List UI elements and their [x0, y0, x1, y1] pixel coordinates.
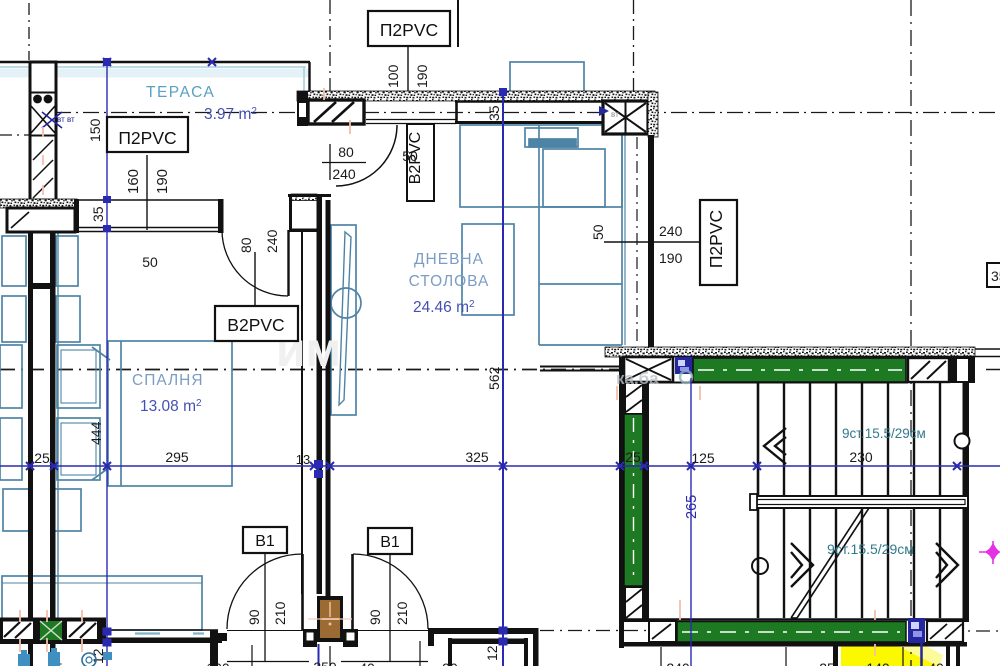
svg-text:190: 190	[414, 64, 430, 88]
vertical dimension line x=318	[318, 460, 320, 474]
door frame lines below stair wall	[833, 646, 960, 666]
door B1 left leaf and arc	[227, 554, 303, 631]
svg-text:13.08 m2: 13.08 m2	[140, 398, 202, 415]
top wall window sill lines (opening)	[366, 120, 456, 124]
handrail bar	[750, 494, 968, 510]
stair left wall	[619, 357, 649, 648]
svg-text:80: 80	[338, 144, 354, 160]
watermark ka.ba	[616, 369, 692, 388]
terrace bottom wall box	[7, 208, 75, 232]
svg-text:25: 25	[625, 449, 641, 465]
svg-text:240: 240	[264, 229, 280, 253]
svg-text:35: 35	[90, 206, 106, 222]
stair left wall hatch below green	[625, 587, 643, 621]
yellow highlight wedge bottom right	[841, 641, 943, 666]
svg-text:80: 80	[238, 237, 254, 253]
axis line vertical x=633 top	[633, 0, 635, 96]
svg-text:90: 90	[246, 609, 262, 625]
svg-text:П2PVC: П2PVC	[380, 20, 438, 40]
stair top wall	[622, 357, 1000, 383]
tie line above window jamb	[457, 0, 459, 47]
bed pillows / side panels	[57, 345, 100, 408]
svg-text:240: 240	[666, 660, 690, 666]
svg-text:П2PVC: П2PVC	[118, 128, 176, 148]
stair bottom wall hatch right	[927, 621, 963, 642]
svg-text:125: 125	[691, 450, 715, 466]
partial label box right edge	[987, 263, 1000, 287]
stair left wall hatch above green	[625, 383, 643, 414]
svg-text:210: 210	[394, 601, 410, 625]
svg-text:3.97 m2: 3.97 m2	[204, 106, 257, 123]
label box P2PVC terrace	[107, 117, 188, 230]
right wall speckle	[648, 92, 658, 137]
svg-text:СПАЛНЯ: СПАЛНЯ	[132, 372, 204, 389]
salmon construction ticks	[20, 88, 875, 656]
bedroom terrace door leaf and arc	[222, 230, 289, 296]
top wall speckle band	[297, 91, 655, 101]
stair treads upper flight	[784, 383, 940, 497]
svg-text:B1: B1	[380, 534, 400, 551]
stair top green band	[693, 358, 906, 382]
door B1 right leaf and arc	[352, 554, 428, 631]
stair left wall green band	[624, 414, 643, 586]
lower flight chevron left	[791, 543, 813, 587]
svg-text:ТЕРАСА: ТЕРАСА	[146, 84, 215, 101]
stair left wall top X box	[624, 357, 673, 382]
svg-text:СТОЛОВА: СТОЛОВА	[409, 273, 490, 290]
party wall connector bar	[28, 283, 55, 289]
central wall	[288, 194, 331, 596]
stair top wall hatch right	[908, 349, 1000, 383]
svg-text:25: 25	[819, 660, 835, 666]
label box B2PVC top (rotated)	[407, 124, 434, 201]
stair up diagonal (double line)	[791, 508, 869, 618]
dining table	[462, 224, 514, 315]
svg-text:562: 562	[486, 366, 502, 390]
vt marker at corner	[599, 106, 619, 119]
top-left shaft column	[30, 62, 56, 200]
top wall left end block	[297, 91, 308, 126]
svg-text:150: 150	[87, 118, 103, 142]
sofa vertical divider	[538, 125, 540, 345]
navy markers at x=107 top and wall crossings	[103, 58, 508, 647]
top-right corner box with X braces	[603, 101, 648, 134]
stair right wall	[963, 382, 970, 622]
label box B2PVC bedroom	[215, 252, 298, 341]
axis line vertical x=911 full height	[910, 0, 912, 666]
svg-text:50: 50	[590, 224, 606, 240]
axis line vertical x=29 top	[28, 3, 30, 60]
entry door wooden frame (brown)	[317, 596, 343, 642]
svg-text:160: 160	[125, 169, 142, 194]
label box B1 right	[368, 528, 412, 662]
terrace bottom wall speckle	[0, 199, 77, 208]
svg-text:325: 325	[465, 449, 489, 465]
svg-text:35: 35	[486, 105, 502, 121]
bedroom bed	[108, 341, 232, 486]
door B1 mullion with jamb blocks	[303, 629, 358, 647]
svg-text:25: 25	[34, 450, 50, 466]
svg-text:13: 13	[296, 452, 310, 467]
terrace window	[74, 199, 224, 233]
terrace top edge pale band	[0, 62, 310, 93]
svg-text:П2PVC: П2PVC	[706, 210, 726, 268]
svg-text:444: 444	[88, 421, 104, 445]
svg-text:B2PVC: B2PVC	[227, 315, 284, 335]
svg-text:90: 90	[442, 660, 458, 666]
wardrobe along bottom wall	[2, 576, 202, 630]
planter above top wall	[510, 62, 584, 92]
top wall solid section	[455, 101, 624, 124]
upper flight arrow chevron left	[764, 428, 786, 464]
top wall masonry pier with hatch	[308, 100, 364, 124]
svg-text:295: 295	[165, 449, 189, 465]
axis line vertical x=330 top	[329, 0, 331, 122]
svg-text:ДНЕВНА: ДНЕВНА	[414, 251, 484, 268]
leader 80/240 terrace door	[322, 144, 366, 180]
svg-text:90: 90	[367, 609, 383, 625]
svg-text:35: 35	[991, 268, 1000, 284]
night stands below bed	[3, 489, 32, 531]
svg-text:230: 230	[849, 449, 873, 465]
svg-text:250: 250	[313, 659, 337, 666]
lower flight newel circle	[752, 558, 768, 574]
vertical dimension line x=107	[106, 60, 108, 666]
axis line horizontal y=135 short left	[0, 134, 30, 136]
label box B1 left	[243, 527, 287, 662]
stair bottom green band	[677, 622, 906, 643]
sofa top inner cushion	[543, 149, 605, 207]
stairwell inner edge left	[757, 383, 760, 618]
svg-text:50: 50	[402, 148, 418, 164]
main horizontal dimension line y=466	[0, 465, 1000, 467]
vertical dimension line x=691	[690, 378, 692, 666]
balcony door arc top wall	[336, 125, 397, 186]
lower flight chevron right	[936, 543, 958, 587]
svg-text:265: 265	[684, 495, 700, 519]
bottom-left wall with modules	[0, 618, 106, 645]
party wall lines left	[28, 232, 56, 666]
stair bottom wall	[621, 620, 967, 647]
sofa top section	[460, 125, 622, 207]
axis line horizontal y=369	[0, 369, 620, 371]
svg-text:12: 12	[484, 645, 500, 661]
svg-text:B1: B1	[255, 533, 275, 550]
hall inner wall bottom center	[428, 628, 539, 666]
svg-text:24.46 m2: 24.46 m2	[413, 299, 475, 316]
svg-text:190: 190	[659, 250, 683, 266]
bottom-left plumbing glyphs	[18, 648, 112, 666]
axis line vertical x=637 living room window centerline	[636, 137, 638, 345]
sofa right section	[621, 135, 623, 345]
bottom edge cut-off texts	[47, 659, 944, 666]
svg-text:вт: вт	[611, 110, 619, 119]
axis line horizontal y=630 right part	[540, 630, 675, 632]
living room bottom-right speckle corner	[605, 347, 975, 357]
bottom dimension ticks	[252, 641, 903, 666]
sofa back table	[525, 128, 578, 147]
green block in bottom-left wall	[40, 621, 62, 640]
svg-text:100: 100	[385, 64, 401, 88]
stair top navy door box	[675, 357, 693, 374]
living room bottom wall thin	[540, 367, 621, 371]
svg-text:9ст.15.5/29см: 9ст.15.5/29см	[842, 426, 926, 441]
svg-text:50: 50	[142, 254, 158, 270]
stair bottom navy door box	[908, 618, 925, 666]
vertical dimension line x=503	[502, 92, 504, 666]
hall cabinet right of central wall	[331, 225, 356, 415]
bottom dimension line under B1 doors	[227, 661, 428, 663]
magenta reference star	[979, 541, 1000, 564]
navy tick marks on y=466	[26, 58, 961, 470]
upper flight newel circle	[955, 434, 970, 449]
svg-text:240: 240	[332, 166, 356, 182]
svg-text:190: 190	[154, 169, 171, 194]
svg-text:вт вт: вт вт	[57, 115, 75, 124]
svg-text:240: 240	[659, 223, 683, 239]
vt vt blue cross at shaft	[42, 112, 75, 128]
svg-text:210: 210	[272, 601, 288, 625]
neighbour cabinets left	[2, 236, 26, 286]
stair treads lower flight	[784, 508, 940, 618]
right wall solid	[648, 135, 654, 347]
svg-text:140: 140	[866, 660, 890, 666]
svg-text:40: 40	[928, 660, 944, 666]
party wall teal edge	[57, 232, 59, 620]
label box P2PVC right (rotated)	[604, 200, 737, 285]
axis line horizontal y=112	[55, 112, 1000, 114]
label box P2PVC top	[368, 11, 450, 91]
svg-text:ка.ба: ка.ба	[616, 369, 659, 388]
bottom wall band to door	[106, 630, 227, 666]
svg-text:9ст.15.5/29см: 9ст.15.5/29см	[827, 541, 914, 557]
svg-text:100: 100	[206, 660, 230, 666]
